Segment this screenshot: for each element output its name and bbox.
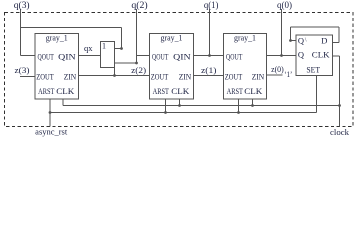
- wire QOUT of flip-flop U0 to U1: [267, 55, 297, 57]
- svg-text:ZIN: ZIN: [252, 73, 265, 82]
- wire qx QIN of U3 to block 1: [79, 55, 101, 57]
- wire q(1) vertical drop: [209, 9, 211, 56]
- gray_1 block U1: [224, 34, 267, 100]
- svg-text:ZIN: ZIN: [64, 73, 77, 82]
- svg-text:D: D: [321, 36, 327, 46]
- wire async_rst rail: [50, 112, 317, 114]
- wire QN loop vertical left: [290, 27, 292, 41]
- wire q(0) vertical drop: [281, 9, 283, 56]
- svg-text:z(2): z(2): [131, 65, 146, 75]
- svg-text:ARST: ARST: [153, 87, 169, 96]
- junction CLK U2: [178, 104, 181, 107]
- svg-text:ARST: ARST: [38, 87, 54, 96]
- logic block 1: [101, 42, 115, 68]
- wire CLK of flip-flop: [333, 55, 340, 57]
- junction q(0) on Q net: [280, 54, 283, 57]
- wire z(2) net ZOUT U2 to ZIN U3: [79, 75, 150, 77]
- wire q(2) to QOUT of U2: [137, 55, 150, 57]
- svg-text:clock: clock: [330, 128, 349, 137]
- dashed boundary border: [5, 13, 354, 127]
- svg-text:q(2): q(2): [131, 0, 147, 10]
- svg-text:gray_1: gray_1: [161, 33, 183, 42]
- wire q(3) rail vertical down: [121, 28, 123, 49]
- svg-text:Q: Q: [298, 50, 304, 60]
- svg-text:QOUT: QOUT: [226, 52, 242, 61]
- svg-text:qx: qx: [84, 43, 93, 53]
- junction QN loop corner: [289, 39, 292, 42]
- svg-text:ARST: ARST: [227, 87, 243, 96]
- svg-text:q(1): q(1): [204, 0, 219, 10]
- wire clock rail: [63, 105, 340, 107]
- svg-text:ZOUT: ZOUT: [151, 73, 169, 82]
- wire QN loop vertical right: [338, 27, 340, 43]
- wire block 1 bottom to z(2): [114, 68, 116, 76]
- svg-text:z(1): z(1): [201, 65, 217, 75]
- gray_1 block U2: [150, 34, 194, 100]
- svg-text:SET: SET: [306, 65, 320, 74]
- D flip-flop U0: [296, 35, 333, 76]
- svg-text:QIN: QIN: [173, 52, 191, 61]
- gray_1 block U3: [35, 34, 79, 100]
- wire q(3) feedback rail: [21, 27, 122, 29]
- junction block1 output to q(2): [135, 62, 138, 65]
- svg-text:CLK: CLK: [56, 87, 74, 96]
- wire q(3) to QOUT of U3: [21, 55, 36, 57]
- svg-text:\: \: [305, 38, 307, 44]
- svg-text:z(0): z(0): [271, 64, 284, 74]
- svg-text:QOUT: QOUT: [152, 52, 168, 61]
- junction ARST U1: [237, 111, 240, 114]
- svg-text:QOUT: QOUT: [38, 52, 54, 61]
- svg-text:gray_1: gray_1: [234, 33, 256, 42]
- wire block 1 output: [115, 62, 137, 64]
- wire q(2) vertical drop: [136, 9, 138, 63]
- wire SET stub of flip-flop: [316, 76, 318, 113]
- svg-text:‘1’: ‘1’: [284, 70, 292, 79]
- svg-text:ZIN: ZIN: [179, 73, 192, 82]
- wire q(3) vertical drop: [20, 9, 22, 56]
- junction ARST U2: [164, 111, 167, 114]
- junction q(3) rail corner: [120, 47, 123, 50]
- wire into D of flip-flop: [333, 42, 340, 44]
- wire async_rst vertical: [49, 99, 51, 127]
- wire CLK stub U1: [252, 99, 254, 106]
- wire QIN of U2 to QOUT of U1: [194, 55, 224, 57]
- svg-text:q(0): q(0): [277, 0, 292, 10]
- wire q(3) rail into block 1: [115, 48, 122, 50]
- svg-text:ZOUT: ZOUT: [225, 73, 243, 82]
- wire z(0) stub to constant '1': [267, 74, 283, 76]
- wire QN of flip-flop to feedback: [291, 40, 297, 42]
- svg-text:1: 1: [102, 42, 106, 51]
- wire clock vertical to border: [339, 56, 341, 127]
- svg-text:async_rst: async_rst: [35, 128, 68, 137]
- wire z(1) net ZOUT U1 to ZIN U2: [194, 75, 224, 77]
- svg-text:CLK: CLK: [244, 87, 262, 96]
- svg-text:CLK: CLK: [312, 51, 330, 60]
- junction clock rail end: [338, 104, 341, 107]
- wire CLK stub U3: [62, 99, 64, 106]
- junction async_rst rail: [49, 111, 52, 114]
- wire CLK stub U2: [179, 99, 181, 106]
- wire z(3) stub at ZOUT of U3: [20, 76, 35, 78]
- svg-text:z(3): z(3): [15, 65, 30, 75]
- wire QN loop top: [291, 26, 340, 28]
- wire ARST stub U1: [238, 99, 240, 113]
- wire ARST stub U2: [165, 99, 167, 113]
- svg-text:Q: Q: [298, 36, 304, 46]
- svg-text:q(3): q(3): [14, 0, 30, 10]
- svg-text:ZOUT: ZOUT: [36, 73, 54, 82]
- junction q(1) on QIN net: [208, 54, 211, 57]
- svg-text:gray_1: gray_1: [46, 33, 68, 42]
- junction CLK U1: [251, 104, 254, 107]
- junction block1 on z(2) net: [113, 74, 116, 77]
- svg-text:CLK: CLK: [171, 87, 189, 96]
- svg-text:QIN: QIN: [58, 52, 76, 61]
